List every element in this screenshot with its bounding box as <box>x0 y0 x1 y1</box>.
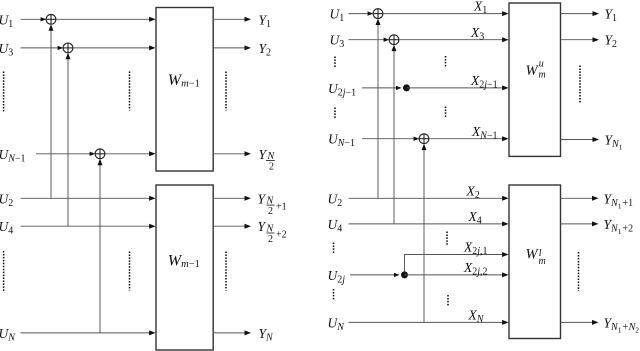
arrow YN1 <box>593 137 600 142</box>
output wire YN/2+2 <box>213 225 244 227</box>
wire UN-1 to XOR <box>36 153 93 155</box>
arrow X2j-1 into box <box>502 85 509 90</box>
arrow XN into box <box>502 320 509 325</box>
vertical wire UN branch up to XOR3 <box>99 164 101 333</box>
arrow into box row3 <box>149 151 156 156</box>
svg-text:W: W <box>526 63 540 79</box>
arrow into box row2 <box>149 45 156 50</box>
svg-text:2: 2 <box>268 206 273 217</box>
arrow X2j,2 into box <box>502 272 509 277</box>
arrow YN1+2 <box>592 221 599 226</box>
arrow up into XOR5 <box>392 45 397 52</box>
arrow YN/2+1 <box>245 196 252 201</box>
dotted ellipsis left edge top <box>3 72 5 112</box>
svg-text:UN−1: UN−1 <box>328 132 355 150</box>
output wire YN/2+1 <box>213 197 244 199</box>
XOR gate R2 <box>389 35 399 45</box>
svg-text:XN−1: XN−1 <box>471 124 498 142</box>
svg-text:2: 2 <box>268 234 273 245</box>
wire junction to box Wu (X2j-1) <box>407 87 503 89</box>
XOR gate R3 <box>419 134 429 144</box>
dotted ellipsis right-labels top2 <box>334 108 336 120</box>
arrow up into XOR2 <box>66 53 71 60</box>
svg-text:UN: UN <box>328 315 346 333</box>
arrow into XOR2 <box>58 46 64 50</box>
svg-text:U3: U3 <box>0 41 13 59</box>
wire U2j-1 to junction <box>362 87 396 89</box>
wire U4 to box Wl (X4) <box>349 223 503 225</box>
arrow YN/2 <box>245 151 252 156</box>
svg-text:U4: U4 <box>328 217 343 235</box>
svg-text:U2j: U2j <box>328 268 346 286</box>
wire junction to box Wl (X2j,2) <box>405 274 503 276</box>
label YN/2+2 (fraction) <box>258 219 287 245</box>
svg-text:Y: Y <box>258 219 267 234</box>
wire UN to box Wl (XN) <box>349 321 503 323</box>
dotted ellipsis pre-box top2 <box>445 107 447 119</box>
wire XOR2 to box W1 <box>73 47 150 49</box>
box W_{m-1} upper <box>156 8 213 172</box>
label W_m^l <box>526 247 546 268</box>
svg-text:2: 2 <box>269 162 274 173</box>
vertical wire UN branch up to XOR6 <box>423 149 425 323</box>
arrow X4 into box <box>502 221 509 226</box>
dotted ellipsis right of box W2 <box>225 252 227 291</box>
arrow YN <box>245 330 252 335</box>
wire U4 to box W2 <box>21 225 150 227</box>
arrow into XOR4 <box>368 11 374 15</box>
svg-text:UN−1: UN−1 <box>0 147 26 165</box>
svg-text:Y: Y <box>259 147 268 162</box>
box W_{m-1} lower <box>156 185 213 350</box>
arrow into XOR6 <box>414 137 420 141</box>
wire UN-1 to XOR6 <box>362 138 417 140</box>
svg-text:Y2: Y2 <box>605 33 618 51</box>
box W_m^u <box>509 3 561 156</box>
arrow YN1+1 <box>592 196 599 201</box>
arrow X3 into box <box>502 37 509 42</box>
wire U3 to XOR <box>21 47 62 49</box>
wire U2j to junction <box>350 274 394 276</box>
wire XOR3 to box W1 <box>105 153 150 155</box>
label YN/2+1 (fraction) <box>258 191 287 217</box>
svg-text:U3: U3 <box>330 33 345 51</box>
arrow YN1+N2 <box>592 320 599 325</box>
vertical wire U2 branch up to XOR4 <box>377 24 379 199</box>
output wire YN1+2 <box>561 223 593 225</box>
svg-text:W: W <box>526 247 540 263</box>
vertical wire U2 branch up to XOR1 <box>50 30 52 199</box>
arrow Y2 <box>245 45 252 50</box>
junction dot on X2j-1 line <box>403 84 410 91</box>
wire U2 to box W2 <box>21 197 150 199</box>
arrow up into XOR3 <box>98 159 103 166</box>
label W_m^u <box>526 59 546 81</box>
dotted ellipsis left edge bottom <box>3 251 5 292</box>
svg-text:X3: X3 <box>470 25 484 43</box>
arrow Y2 right <box>593 37 600 42</box>
wire U1 to XOR <box>21 18 45 20</box>
svg-text:u: u <box>539 59 544 70</box>
svg-text:X2j,2: X2j,2 <box>463 260 488 278</box>
svg-text:X2: X2 <box>466 183 480 201</box>
arrow up into XOR1 <box>49 24 54 31</box>
wire U2 to box Wl (X2) <box>349 197 503 199</box>
dotted ellipsis right-labels bottom1 <box>333 243 335 254</box>
wire XOR1 to box W1 <box>56 18 150 20</box>
box W_m^l <box>509 185 561 339</box>
dotted ellipsis right-labels top1 <box>334 57 336 69</box>
arrow X1 into box <box>502 11 509 16</box>
arrow into box row1 <box>149 17 156 22</box>
svg-text:Y2: Y2 <box>259 41 272 59</box>
dotted ellipsis pre-box top1 <box>445 56 447 67</box>
dotted ellipsis mid-left bottom <box>129 252 131 291</box>
dotted ellipsis pre-box bottom2 <box>447 295 449 306</box>
arrow X2 into box <box>502 196 509 201</box>
XOR gate L1 <box>46 14 56 24</box>
svg-text:YN: YN <box>259 326 275 344</box>
output wire YN/2 <box>213 153 244 155</box>
output wire Y2 (right) <box>561 39 593 41</box>
vertical wire U4 branch up to XOR2 <box>67 58 69 226</box>
output wire YN <box>213 332 244 334</box>
svg-text:YN1+2: YN1+2 <box>604 217 634 236</box>
dotted ellipsis right-labels bottom2 <box>333 289 335 300</box>
arrow into box2 row2 <box>149 224 156 229</box>
svg-text:XN: XN <box>468 308 485 326</box>
XOR gate R1 <box>373 9 383 19</box>
svg-text:X2j,1: X2j,1 <box>463 240 488 258</box>
svg-text:U4: U4 <box>0 219 13 237</box>
output wire Y2 <box>213 47 244 49</box>
svg-text:+1: +1 <box>276 202 287 213</box>
svg-text:U1: U1 <box>330 7 345 25</box>
arrow into box2 row3 <box>149 330 156 335</box>
output wire Y1 (right) <box>561 13 593 15</box>
output wire YN1+1 <box>561 197 593 199</box>
svg-text:Y1: Y1 <box>605 7 618 25</box>
arrow up into XOR6 <box>422 144 427 151</box>
arrow into XOR1 <box>41 17 47 21</box>
wire XOR5 to box Wu (X3) <box>399 39 503 41</box>
XOR gate L2 <box>63 43 73 53</box>
junction dot on U2j line <box>401 271 408 278</box>
arrow into XOR3 <box>90 152 96 156</box>
wire UN to box W2 <box>21 332 150 334</box>
wire U1 to XOR4 <box>349 13 372 15</box>
svg-text:UN: UN <box>0 326 16 344</box>
dotted ellipsis right of box W1 <box>225 72 227 111</box>
svg-text:YN1+N2: YN1+N2 <box>604 315 640 334</box>
svg-text:X4: X4 <box>468 209 482 227</box>
svg-text:Y: Y <box>258 191 267 206</box>
dotted ellipsis pre-box bottom1 <box>446 232 448 247</box>
label YN/2 (fraction) <box>259 147 276 173</box>
arrow into box2 row1 <box>149 196 156 201</box>
wire U3 to XOR5 <box>349 39 388 41</box>
arrow YN/2+2 <box>245 224 252 229</box>
wire XOR6 to box Wu (XN-1) <box>429 138 503 140</box>
arrow X2j,1 into box <box>502 252 509 257</box>
arrow into XOR5 <box>384 38 390 42</box>
svg-text:YN1: YN1 <box>605 133 623 152</box>
dotted ellipsis mid-left top <box>129 72 131 111</box>
svg-text:m: m <box>539 256 546 267</box>
svg-text:U2j−1: U2j−1 <box>328 81 356 99</box>
svg-text:U2: U2 <box>328 191 343 209</box>
output wire YN1 <box>561 139 593 141</box>
dotted ellipsis right of box Wu <box>579 66 581 104</box>
svg-text:m: m <box>539 69 546 80</box>
XOR gate L3 <box>95 149 105 159</box>
svg-text:X2j−1: X2j−1 <box>470 73 498 91</box>
svg-text:Y1: Y1 <box>259 12 272 30</box>
wire X2j,1 branch line <box>405 255 503 275</box>
arrow Y1 right <box>593 11 600 16</box>
vertical wire U4 branch up to XOR5 <box>393 50 395 224</box>
arrow before junction dot (U2j) <box>394 273 400 277</box>
dotted ellipsis right of box Wl <box>578 252 580 291</box>
arrow Y1 <box>245 17 252 22</box>
output wire YN1+N2 <box>561 321 593 323</box>
arrow before junction dot <box>396 86 402 90</box>
svg-text:+2: +2 <box>276 229 287 240</box>
arrow XN-1 into box <box>502 136 509 141</box>
svg-text:U1: U1 <box>0 12 13 30</box>
arrow up into XOR4 <box>376 19 381 26</box>
svg-text:U2: U2 <box>0 191 13 209</box>
wire XOR4 to box Wu (X1) <box>383 13 503 15</box>
svg-text:YN1+1: YN1+1 <box>604 191 634 210</box>
output wire Y1 <box>213 18 244 20</box>
